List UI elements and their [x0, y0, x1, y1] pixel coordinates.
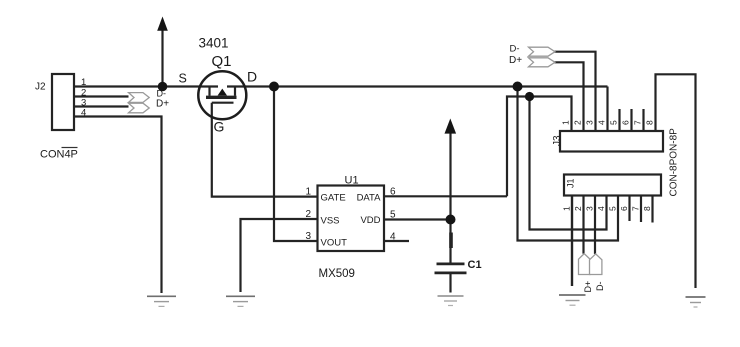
svg-text:DATA: DATA: [357, 193, 382, 204]
svg-text:VOUT: VOUT: [321, 238, 348, 249]
svg-text:3: 3: [305, 231, 311, 242]
svg-text:5: 5: [608, 206, 618, 211]
svg-text:D+: D+: [156, 99, 169, 110]
svg-text:D+: D+: [583, 281, 593, 293]
svg-text:D+: D+: [509, 55, 522, 66]
svg-text:1: 1: [81, 77, 86, 88]
svg-text:7: 7: [631, 206, 641, 211]
svg-text:1: 1: [562, 206, 572, 211]
svg-text:D-: D-: [595, 282, 605, 292]
svg-text:CON-8PON-8P: CON-8PON-8P: [669, 128, 680, 197]
svg-text:D: D: [247, 69, 257, 85]
svg-text:2: 2: [573, 120, 583, 125]
svg-text:CON4P: CON4P: [40, 149, 78, 161]
svg-text:J1: J1: [566, 178, 576, 188]
svg-text:3401: 3401: [199, 36, 229, 51]
svg-text:4: 4: [390, 232, 396, 243]
svg-text:2: 2: [573, 206, 583, 211]
svg-text:7: 7: [633, 120, 643, 125]
svg-text:1: 1: [561, 120, 571, 125]
svg-text:D-: D-: [510, 44, 520, 55]
svg-text:4: 4: [597, 120, 607, 125]
svg-text:S: S: [179, 72, 187, 86]
svg-text:Q1: Q1: [212, 53, 232, 70]
svg-text:1: 1: [305, 187, 311, 198]
svg-text:5: 5: [609, 120, 619, 125]
svg-text:C1: C1: [468, 259, 482, 271]
svg-text:8: 8: [642, 206, 652, 211]
svg-text:6: 6: [621, 120, 631, 125]
svg-text:MX509: MX509: [319, 268, 355, 280]
svg-text:GATE: GATE: [321, 193, 346, 204]
svg-text:6: 6: [619, 206, 629, 211]
svg-text:U1: U1: [345, 175, 359, 187]
svg-text:D-: D-: [157, 89, 167, 99]
svg-text:G: G: [214, 119, 225, 135]
svg-text:VDD: VDD: [360, 215, 380, 226]
svg-text:J2: J2: [35, 82, 46, 93]
svg-text:4: 4: [81, 108, 86, 119]
svg-text:3: 3: [585, 206, 595, 211]
svg-text:VSS: VSS: [321, 216, 340, 227]
svg-text:8: 8: [645, 120, 655, 125]
svg-text:5: 5: [390, 210, 396, 221]
svg-text:J3: J3: [552, 135, 563, 146]
svg-text:3: 3: [585, 120, 595, 125]
svg-text:6: 6: [390, 187, 396, 198]
svg-text:2: 2: [305, 209, 311, 220]
svg-text:4: 4: [596, 206, 606, 211]
